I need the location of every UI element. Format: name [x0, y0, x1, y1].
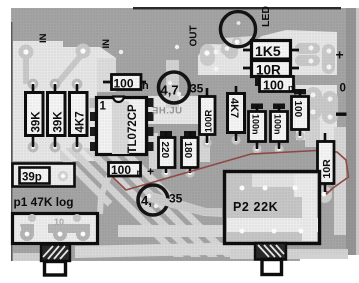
capacitor C 180: [182, 131, 199, 173]
resistor R 39K a: [26, 84, 44, 147]
resistor R 4K7 b vertical: [228, 86, 245, 141]
resistor R 10R top: [243, 61, 299, 78]
capacitor C 100n v1: [249, 104, 266, 150]
copper patch right of caps: [305, 119, 320, 147]
left border line: [11, 22, 12, 261]
resistor R 10R right vertical: [318, 133, 335, 192]
hole mid top a: [119, 50, 123, 54]
resistor R 4K7 a: [70, 84, 88, 147]
copper strip right of C 180: [200, 136, 210, 162]
copper plane top-left: [13, 41, 116, 161]
LED D1: [219, 12, 257, 56]
connector jack J2 bushing: [255, 243, 286, 275]
pads row below left resistors: [28, 142, 83, 153]
pad IN2: [76, 44, 91, 59]
op-amp IC U1 TL072CP: [90, 97, 154, 155]
pad right of P2 red wire end: [317, 186, 332, 203]
resistor R 100R vertical: [200, 88, 216, 143]
copper stripe behind electrolytic C1: [166, 60, 179, 108]
copper strip right edge: [334, 127, 346, 235]
copper wide diagonal from cap C2 to pot P2: [144, 191, 222, 217]
copper band bottom long: [75, 242, 254, 258]
potentiometer P2 22K: [225, 172, 320, 244]
copper trace top-left diagonal: [57, 53, 83, 84]
copper band bottom right: [230, 249, 348, 259]
right darker scan band: [346, 8, 356, 255]
copper plane middle under silkscreen: [143, 96, 216, 124]
connector jack J1 bushing: [41, 245, 70, 276]
capacitor C 100 top right: [255, 77, 294, 94]
pad OUT: [200, 44, 215, 66]
copper band under pot area: [118, 225, 223, 237]
pad IN1: [19, 45, 34, 60]
red wire link: [111, 151, 349, 195]
hole mid top b: [175, 45, 179, 49]
capacitor C 220: [159, 131, 176, 173]
pads right block: [224, 43, 338, 124]
gray notch in plane near IC: [97, 58, 116, 92]
capacitor C 100n v2: [271, 104, 288, 150]
top border line: [133, 7, 341, 9]
copper plane top-right: [198, 30, 337, 75]
resistor R 39K b: [48, 84, 66, 147]
copper strip left of C 220: [149, 133, 158, 169]
pads below caps cluster: [161, 131, 304, 177]
electrolytic capacitor C1 4,7/35: [159, 72, 204, 103]
copper trace vertical from pad IN1: [23, 55, 29, 84]
capacitor C 100n bottom left: [109, 163, 143, 178]
electrolytic capacitor C2 4,7/35: [138, 185, 222, 216]
capacitor C 100n top: [103, 75, 149, 93]
supply label minus: [336, 113, 347, 116]
capacitor C 39p: [13, 164, 75, 187]
potentiometer P1 47K log: [13, 214, 98, 244]
capacitor C 100 v3: [292, 89, 309, 136]
copper curved trace right of pot P1: [100, 176, 109, 214]
resistor R 1K5: [243, 41, 299, 60]
pads row above left resistors: [28, 79, 83, 90]
copper trace bottom left under P1: [13, 253, 41, 261]
